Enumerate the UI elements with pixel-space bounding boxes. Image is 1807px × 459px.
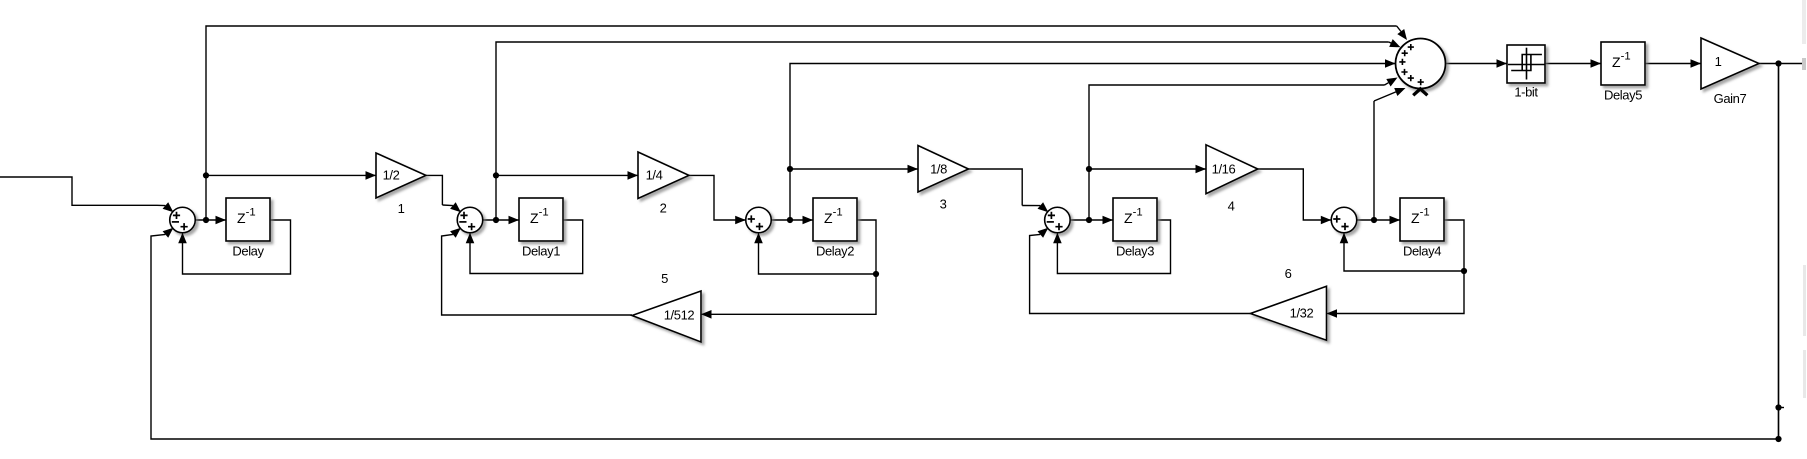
svg-text:Delay4: Delay4 [1403, 244, 1441, 259]
arrowhead of wire: Gain 1/2 into Sum1 upper-left port [450, 202, 461, 212]
svg-text:3: 3 [940, 197, 947, 212]
wire: stage2 node branch to Gain 1/4 [496, 174, 638, 176]
arrowhead of wire: Delay feedback loop to Sum bottom port [178, 233, 187, 243]
arrowhead of wire: Gain 1/4 output into Sum2 left port [735, 216, 746, 225]
arrowhead: top rail 4 into Add port 4 [1386, 78, 1397, 87]
node: stage4 output junction [1086, 217, 1092, 223]
arrowhead of wire: Sum output to Delay [216, 216, 227, 225]
relay hysteresis icon [1508, 48, 1545, 80]
wire: top rail 1 diagonal into Add [1397, 26, 1401, 32]
unit delay block Delay (Z^-1) [226, 198, 270, 241]
wire: stage3 node branch to Gain 1/8 [790, 168, 918, 170]
scrollbar strip lower right 1 [1803, 265, 1806, 336]
wire: Gain 1/4 output into Sum2 left port [689, 175, 746, 220]
wire: Sum1 output to Delay1 [483, 219, 519, 221]
svg-text:6: 6 [1285, 266, 1292, 281]
wire: Gain 1/32 output into Sum3 minus port [1030, 234, 1251, 313]
wire: top rail 2 diagonal into Add [1389, 42, 1393, 44]
arrowhead of wire: input signal into Sum upper-left port [163, 202, 174, 212]
arrowhead of wire: stage1 node branch to Gain 1/2 [366, 171, 377, 180]
wire: Gain 1/2 into Sum1 upper-left port [442, 204, 453, 207]
wire: Gain7 output to right edge [1759, 63, 1802, 65]
unit delay block Delay2 (Z^-1) [813, 198, 857, 241]
gain block Gain7 (value 1) [1701, 38, 1759, 89]
wire: Gain 1/2 output down [426, 175, 442, 205]
sum block Sum (stage 1, +-+) [170, 207, 196, 233]
relay quantizer block 1-bit [1507, 45, 1545, 83]
svg-text:Gain7: Gain7 [1714, 91, 1747, 106]
wire: stage5 node up [1373, 101, 1375, 220]
wire: Sum3 output to Delay3 [1070, 219, 1113, 221]
wire: stage1 node branch to Gain 1/2 [206, 174, 376, 176]
node: stage5 output junction [1371, 217, 1377, 223]
arrowhead of wire: branch down into Gain 1/512 input [701, 310, 712, 319]
gain block 1 (value 1/2) [376, 153, 426, 198]
wire: stage4 node up to top rail y=85 [1089, 85, 1385, 220]
svg-text:1/8: 1/8 [930, 161, 947, 176]
wire: Delay feedback loop to Sum bottom port [183, 220, 291, 274]
svg-text:1-bit: 1-bit [1514, 85, 1538, 100]
arrowhead of wire: Gain 1/16 output into Sum4 left port [1321, 216, 1331, 225]
svg-text:Delay2: Delay2 [816, 244, 854, 259]
node: Delay4 loop to 1/32 branch [1461, 268, 1467, 274]
sum block Sum1 (stage 2, +-+) [457, 207, 483, 233]
wire: Sum2 output to Delay2 [771, 219, 813, 221]
arrowhead of wire: Delay2 feedback loop to Sum2 bottom port [754, 233, 763, 243]
arrowhead: stage5 wire into Add port 5 [1394, 88, 1405, 96]
scrollbar strip lower right 2 [1803, 350, 1806, 398]
svg-text:1: 1 [398, 201, 405, 216]
wire: stage5 diagonal into Add [1374, 92, 1397, 101]
node: stage3 gain branch [787, 166, 793, 172]
arrowhead of wire: Gain 1/32 output into Sum3 minus port [1038, 228, 1049, 238]
node: Gain7 output junction [1775, 60, 1781, 66]
svg-text:Delay: Delay [232, 244, 264, 259]
arrowhead of wire: Delay4 feedback loop to Sum4 bottom port [1340, 233, 1349, 243]
arrowhead of wire: output feedback to Sum minus port [163, 228, 174, 238]
svg-text:1/16: 1/16 [1212, 161, 1236, 176]
unconnected bottom port marker of Add [1413, 89, 1427, 95]
node: stage4 gain branch [1086, 166, 1092, 172]
scrollbar mark mid right [1802, 58, 1806, 70]
unit delay block Delay4 (Z^-1) [1400, 198, 1444, 241]
node: bottom-right corner [1775, 436, 1781, 442]
arrowhead of wire: Add output to 1-bit quantizer [1497, 59, 1508, 68]
node: stage2 output junction [493, 217, 499, 223]
arrowhead of wire: Delay5 output to Gain7 [1691, 59, 1702, 68]
gain block 2 (value 1/4) [638, 152, 689, 199]
sum block Sum3 (stage 4, +-+) [1045, 207, 1071, 233]
node: stage1 gain branch [203, 172, 209, 178]
wire: stage4 node branch to Gain 1/16 [1089, 168, 1206, 170]
node: right-side branch [1775, 404, 1781, 410]
wire: output feedback down right side [1778, 64, 1780, 440]
arrowhead of wire: branch down into Gain 1/32 input [1327, 309, 1338, 318]
gain block 4 (value 1/16) [1206, 145, 1258, 194]
arrowhead of wire: 1-bit output to Delay5 [1591, 59, 1602, 68]
wire: Gain 1/8 output down [969, 169, 1023, 206]
unit delay block Delay3 (Z^-1) [1113, 198, 1157, 241]
wire: Delay3 feedback loop to Sum3 bottom port [1057, 220, 1170, 274]
wire: stage3 node up to top rail into Add port 3 [790, 64, 1396, 221]
arrowhead: top rail 2 into Add port 2 [1389, 39, 1400, 47]
feedback gain block 6 (value 1/32) [1250, 286, 1326, 340]
svg-text:Delay3: Delay3 [1116, 244, 1154, 259]
svg-text:2: 2 [660, 201, 667, 216]
svg-text:1/2: 1/2 [383, 168, 400, 183]
wire: Add output to 1-bit quantizer [1446, 63, 1508, 65]
wire: Delay1 feedback loop to Sum1 bottom port [470, 220, 583, 274]
svg-text:1/4: 1/4 [646, 168, 663, 183]
unit delay block Delay1 (Z^-1) [519, 198, 563, 241]
arrowhead of wire: Sum3 output to Delay3 [1103, 216, 1114, 225]
arrowhead of wire: stage3 node branch to Gain 1/8 [908, 165, 919, 174]
wire: top rail 4 diagonal into Add [1385, 83, 1389, 85]
wire: input signal into Sum upper-left port [0, 177, 165, 206]
sum block Add (six + inputs) [1396, 39, 1446, 89]
node: Delay2 loop to 1/512 branch [873, 271, 879, 277]
arrowhead of wire: Sum2 output to Delay2 [803, 216, 814, 225]
sum block Sum4 (stage 5, ++) [1331, 207, 1357, 233]
svg-text:5: 5 [661, 271, 668, 286]
wire: Delay5 output to Gain7 [1645, 63, 1701, 65]
wire: branch down into Gain 1/32 input [1327, 271, 1465, 314]
svg-text:4: 4 [1228, 199, 1235, 214]
wire: stage2 node up to top rail y=42 [496, 42, 1389, 220]
scrollbar strip top right [1802, 0, 1806, 44]
wire: Sum4 output to Delay4 [1357, 219, 1400, 221]
arrowhead of wire: Delay1 feedback loop to Sum1 bottom port [466, 233, 475, 243]
wire: Delay4 feedback loop to Sum4 bottom port [1344, 220, 1464, 271]
wire: stage1 node up to top rail y=26 [206, 26, 1397, 220]
arrowhead: top rail 1 into Add port 1 [1397, 29, 1407, 40]
arrowhead of wire: Sum4 output to Delay4 [1390, 216, 1401, 225]
arrowhead of wire: stage3 node up to top rail into Add port 3 [1385, 59, 1396, 68]
node: stage2 gain branch [493, 172, 499, 178]
sum block Sum2 (stage 3, ++) [746, 207, 772, 233]
wire: stub at right branch node [1779, 407, 1785, 409]
arrowhead of wire: Gain 1/8 into Sum3 upper-left port [1038, 202, 1049, 212]
unit delay block Delay5 (Z^-1) [1601, 42, 1645, 85]
wire: Gain 1/16 output into Sum4 left port [1258, 169, 1331, 220]
svg-text:Delay1: Delay1 [522, 244, 560, 259]
svg-text:1/512: 1/512 [664, 308, 695, 323]
gain block 3 (value 1/8) [918, 146, 969, 193]
arrowhead of wire: stage2 node branch to Gain 1/4 [628, 171, 639, 180]
wire: Sum output to Delay [195, 219, 226, 221]
wire: Gain 1/512 output into Sum1 minus port [442, 234, 632, 315]
wire: branch down into Gain 1/512 input [701, 274, 876, 314]
arrowhead of wire: Gain 1/512 output into Sum1 minus port [450, 228, 461, 238]
wire: Delay2 feedback loop to Sum2 bottom port [759, 220, 877, 274]
wire: 1-bit output to Delay5 [1545, 63, 1601, 65]
svg-text:1/32: 1/32 [1290, 306, 1314, 321]
arrowhead of wire: Sum1 output to Delay1 [509, 216, 520, 225]
arrowhead of wire: stage4 node branch to Gain 1/16 [1196, 165, 1207, 174]
wire: Gain 1/8 into Sum3 upper-left port [1022, 205, 1040, 207]
wire: output feedback to Sum minus port [151, 64, 1779, 440]
feedback gain block 5 (value 1/512) [632, 291, 701, 342]
svg-text:Delay5: Delay5 [1604, 88, 1642, 103]
node: stage1 output junction [203, 217, 209, 223]
node: stage3 output junction [787, 217, 793, 223]
arrowhead of wire: Delay3 feedback loop to Sum3 bottom port [1053, 233, 1062, 243]
svg-text:1: 1 [1715, 54, 1722, 69]
